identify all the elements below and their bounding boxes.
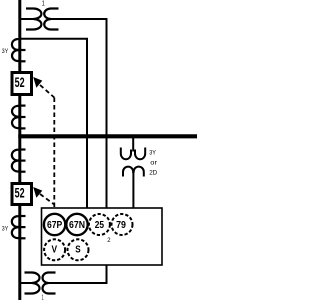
transformer T3 secondary winding (two n scallops) xyxy=(123,167,133,177)
svg-text:52: 52 xyxy=(15,75,25,90)
transformer T2 secondary winding (right) xyxy=(43,273,56,294)
svg-text:52: 52 xyxy=(15,186,25,201)
transformer T1 primary winding (left) xyxy=(26,9,41,30)
dashed trip wire (diagonal to 52 #2) xyxy=(40,194,54,205)
svg-text:3Y: 3Y xyxy=(2,226,9,233)
svg-text:or: or xyxy=(150,160,157,167)
svg-text:79: 79 xyxy=(116,220,126,231)
transformer T2 primary winding (left) xyxy=(25,273,40,294)
wire: bus tap below T1 to relay box xyxy=(20,39,87,208)
wire: feeder vertical bus xyxy=(18,0,21,300)
transformer T1 secondary winding (right) xyxy=(44,9,58,30)
relay 25 (dashed) xyxy=(89,214,110,235)
svg-text:V: V xyxy=(52,245,58,256)
svg-text:2: 2 xyxy=(107,237,110,244)
wire: lead from bus to transformer T1 xyxy=(20,18,34,20)
winding (on bus, below utility bus) xyxy=(12,150,21,172)
trip arrow to 52 #1 xyxy=(33,77,42,88)
svg-text:1: 1 xyxy=(42,1,45,8)
wire: T2 secondary to relay box bottom xyxy=(49,265,107,283)
bus: horizontal utility bus xyxy=(18,134,197,138)
trip arrow to 52 #2 xyxy=(33,187,42,198)
winding 3Y (lower, on bus) xyxy=(12,216,21,238)
svg-text:S: S xyxy=(75,245,81,256)
winding 3Y (upper, on bus) xyxy=(12,39,21,61)
transformer T3 primary winding (two U scallops) xyxy=(121,148,131,160)
svg-text:67P: 67P xyxy=(47,220,63,231)
relay box xyxy=(42,208,163,265)
svg-text:3Y: 3Y xyxy=(2,48,9,55)
svg-text:2D: 2D xyxy=(149,170,157,177)
relay 67P xyxy=(44,214,65,235)
wire: T1 secondary to relay box xyxy=(51,19,107,208)
breaker 52 #1 xyxy=(12,73,32,95)
dashed trip wire (vertical to relay box) xyxy=(53,98,55,209)
relay S (dashed) xyxy=(68,239,89,260)
relay 79 (dashed) xyxy=(112,214,133,235)
winding (on bus, above utility bus) xyxy=(12,106,21,128)
svg-text:25: 25 xyxy=(95,220,105,231)
svg-text:67N: 67N xyxy=(69,220,85,231)
wire: T3 secondary to relay box xyxy=(132,172,134,208)
wire: stub from utility bus to transformer T3 xyxy=(132,138,134,152)
relay V (dashed) xyxy=(44,239,65,260)
breaker 52 #2 xyxy=(12,184,32,205)
dashed trip wire (diagonal to 52 #1) xyxy=(40,85,54,98)
wire: lead from bus to transformer T2 xyxy=(20,282,33,284)
svg-text:1: 1 xyxy=(42,295,44,300)
relay 67N xyxy=(66,214,87,235)
svg-text:3Y: 3Y xyxy=(149,150,156,157)
